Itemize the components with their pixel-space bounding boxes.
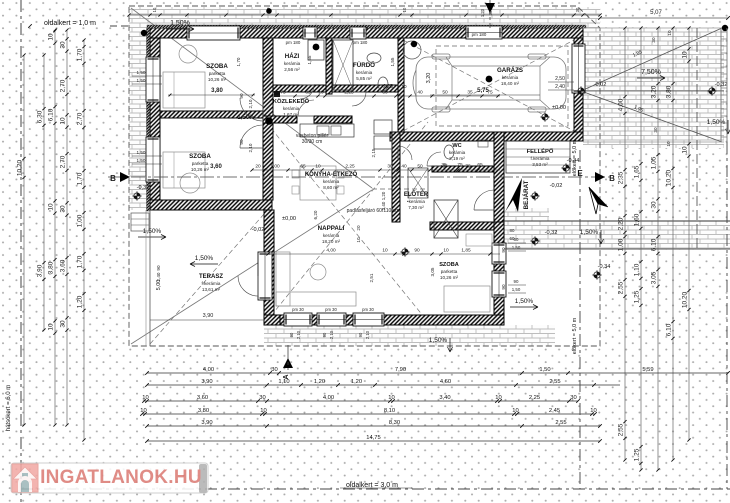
- svg-text:40: 40: [401, 164, 407, 170]
- wall hazi/furdo partition: [326, 38, 332, 94]
- svg-text:előkert = 5,0 m: előkert = 5,0 m: [572, 139, 578, 176]
- window living south 3: [353, 313, 384, 326]
- svg-text:90: 90: [239, 93, 244, 99]
- boundary dashed bottom: [21, 488, 730, 490]
- svg-text:10,26 m²: 10,26 m²: [208, 77, 227, 82]
- window bedroom3 east 1: [492, 243, 506, 264]
- living room table: [310, 264, 326, 280]
- svg-text:2,56 m²: 2,56 m²: [284, 67, 300, 72]
- svg-text:90: 90: [156, 265, 161, 271]
- svg-text:2,70: 2,70: [77, 112, 84, 125]
- svg-text:kerámia: kerámia: [323, 179, 340, 184]
- svg-text:90: 90: [414, 248, 420, 254]
- svg-text:5,59: 5,59: [642, 367, 653, 373]
- svg-text:6,10: 6,10: [666, 323, 673, 336]
- svg-text:10: 10: [48, 203, 55, 211]
- retaining wall right edge: [721, 28, 727, 142]
- svg-text:3,20: 3,20: [426, 73, 432, 84]
- svg-text:3,20: 3,20: [651, 85, 658, 98]
- kitchen-living dashed diagonal 1: [266, 122, 428, 322]
- wall kitchen north east segment: [314, 116, 352, 123]
- svg-text:6,20: 6,20: [313, 210, 318, 219]
- svg-text:±0,00: ±0,00: [552, 105, 566, 111]
- section line A top: [489, 0, 491, 28]
- svg-text:10: 10: [152, 7, 157, 12]
- svg-text:ELŐTÉR: ELŐTÉR: [404, 190, 429, 198]
- svg-text:1,25: 1,25: [634, 290, 641, 303]
- svg-text:1,50: 1,50: [137, 70, 146, 75]
- svg-text:3,53 m²: 3,53 m²: [532, 162, 548, 167]
- wall furdo/garage vertical: [398, 38, 404, 132]
- svg-text:6,10: 6,10: [48, 108, 55, 121]
- svg-text:30: 30: [488, 10, 493, 15]
- bedroom1 armchair: [179, 45, 197, 63]
- svg-text:f.kerámia: f.kerámia: [202, 281, 221, 286]
- svg-text:pm 180: pm 180: [286, 40, 301, 45]
- wall hall north partition: [273, 85, 403, 92]
- svg-text:30: 30: [60, 320, 67, 328]
- elevation mark garage south: [540, 112, 549, 121]
- svg-text:kerámia: kerámia: [283, 106, 300, 111]
- insulation band top exterior: [147, 25, 586, 28]
- svg-text:18,40 m²: 18,40 m²: [501, 81, 520, 86]
- roof eaves dashed outline: [129, 6, 600, 346]
- svg-text:1,20: 1,20: [314, 379, 325, 385]
- svg-text:oldalkert = 1,0 m: oldalkert = 1,0 m: [44, 20, 96, 27]
- svg-text:1,70: 1,70: [236, 57, 241, 66]
- svg-text:4,60: 4,60: [440, 379, 451, 385]
- svg-text:1,55: 1,55: [307, 55, 312, 64]
- svg-text:5,85 m²: 5,85 m²: [356, 76, 372, 81]
- svg-text:1,20: 1,20: [77, 295, 84, 308]
- svg-text:65: 65: [477, 162, 483, 168]
- wall left exterior: [150, 38, 160, 210]
- svg-text:1,10: 1,10: [278, 379, 289, 385]
- garage dashed diagonal 2: [403, 40, 574, 131]
- eloter closet cross box: [408, 168, 428, 198]
- svg-text:1,50: 1,50: [137, 158, 146, 163]
- wall bedroom3 north: [430, 222, 494, 230]
- svg-text:10,26 m²: 10,26 m²: [191, 167, 210, 172]
- door furdo: [352, 92, 366, 106]
- boundary dashed right lower: [726, 142, 728, 489]
- svg-text:B: B: [110, 174, 116, 183]
- svg-text:3,80: 3,80: [666, 85, 673, 98]
- svg-text:75: 75: [465, 164, 471, 170]
- terrace edge lines: [149, 210, 151, 346]
- svg-text:1,50%: 1,50%: [429, 337, 448, 344]
- svg-text:GARÁZS: GARÁZS: [497, 67, 523, 74]
- svg-text:1,05: 1,05: [651, 156, 658, 169]
- attic ladder cross box: [434, 200, 458, 238]
- terrace steps NW: [131, 213, 149, 231]
- svg-text:10: 10: [388, 395, 394, 401]
- svg-text:30: 30: [60, 41, 67, 49]
- svg-text:hátsókert = 6,0 m: hátsókert = 6,0 m: [6, 385, 12, 432]
- svg-text:2,40: 2,40: [555, 84, 565, 90]
- roofline dot NW2: [266, 8, 272, 14]
- wall garage east: [574, 38, 583, 132]
- svg-text:35: 35: [467, 90, 473, 96]
- svg-text:30: 30: [651, 37, 656, 43]
- door hazi: [300, 85, 314, 99]
- svg-text:3,05: 3,05: [430, 267, 435, 276]
- svg-text:2,25: 2,25: [529, 395, 540, 401]
- svg-text:3,80: 3,80: [198, 408, 209, 414]
- garage dashed diagonal 1: [403, 40, 574, 131]
- svg-text:TERASZ: TERASZ: [199, 274, 223, 280]
- svg-text:4,00: 4,00: [323, 395, 334, 401]
- top right dimension 5,07: [600, 17, 728, 19]
- section marker A bottom: [283, 358, 293, 368]
- svg-text:90: 90: [322, 332, 327, 337]
- svg-text:1,67 m²: 1,67 m²: [283, 112, 299, 117]
- bedroom2 bed: [163, 152, 205, 188]
- window bedroom2 west: [146, 137, 160, 182]
- svg-text:pm 180: pm 180: [472, 32, 487, 37]
- svg-text:2,35: 2,35: [618, 171, 625, 184]
- svg-text:1,25: 1,25: [634, 448, 641, 461]
- svg-text:10: 10: [512, 408, 518, 414]
- svg-text:-0,02: -0,02: [594, 82, 607, 88]
- brick walkway band east of entrance: [504, 208, 549, 222]
- svg-text:-0,02: -0,02: [252, 227, 265, 233]
- svg-text:1,50: 1,50: [137, 78, 146, 83]
- boundary dashed left: [20, 0, 22, 503]
- svg-text:parketta: parketta: [209, 71, 226, 76]
- svg-text:5,07: 5,07: [650, 10, 662, 16]
- svg-text:18,20 m²: 18,20 m²: [322, 239, 341, 244]
- svg-text:1,70: 1,70: [77, 172, 84, 185]
- svg-text:-0,32: -0,32: [137, 185, 150, 191]
- boundary dashed right outer: [696, 28, 698, 250]
- svg-text:80: 80: [510, 228, 515, 233]
- svg-text:pm 30: pm 30: [325, 307, 337, 312]
- north arrow: [589, 187, 608, 207]
- wall living/bedroom3 south: [264, 315, 504, 325]
- boundary dashed top-left to house: [110, 25, 129, 27]
- svg-text:30: 30: [271, 367, 277, 373]
- svg-text:7,90: 7,90: [395, 367, 406, 373]
- svg-text:1,50%: 1,50%: [143, 228, 162, 235]
- svg-text:2,10: 2,10: [365, 330, 370, 339]
- svg-text:6,30: 6,30: [37, 110, 44, 123]
- svg-text:1,50%: 1,50%: [580, 229, 599, 236]
- svg-text:2,55: 2,55: [618, 423, 625, 436]
- svg-text:1,50%: 1,50%: [170, 20, 190, 27]
- right dimension chains: [624, 28, 626, 460]
- svg-text:10: 10: [142, 395, 148, 401]
- svg-text:10,20: 10,20: [17, 159, 24, 176]
- left dimension chains: [23, 55, 25, 425]
- svg-text:1,00: 1,00: [618, 238, 625, 251]
- svg-text:10: 10: [402, 7, 407, 12]
- door eloter-hall: [398, 146, 412, 160]
- black column corridor west: [274, 91, 280, 97]
- window bedroom3 east 2: [492, 271, 506, 297]
- svg-text:1,50%: 1,50%: [237, 115, 255, 121]
- svg-text:1,20: 1,20: [381, 191, 386, 200]
- svg-text:pm 30: pm 30: [292, 307, 304, 312]
- svg-text:NAPPALI: NAPPALI: [318, 225, 345, 232]
- svg-text:2,55: 2,55: [549, 379, 560, 385]
- svg-text:3,05: 3,05: [651, 271, 658, 284]
- svg-text:1,00: 1,00: [77, 214, 84, 227]
- roof outline interior (white): [129, 6, 600, 346]
- svg-text:75: 75: [280, 90, 286, 96]
- svg-text:3,90: 3,90: [203, 313, 214, 319]
- corner dot NE: [722, 25, 728, 31]
- svg-text:BEJÁRAT: BEJÁRAT: [523, 180, 530, 209]
- bathroom tub: [333, 40, 353, 90]
- svg-text:10: 10: [356, 237, 361, 243]
- svg-text:10: 10: [382, 248, 388, 254]
- wall bedroom wing south: [150, 200, 272, 210]
- svg-text:2,10: 2,10: [329, 330, 334, 339]
- svg-text:2,40: 2,40: [381, 201, 386, 210]
- kitchen dimension row: [252, 169, 500, 171]
- svg-text:padlásfeljáró 60/110 cm: padlásfeljáró 60/110 cm: [347, 208, 400, 214]
- bathroom wc: [378, 77, 388, 91]
- svg-text:65: 65: [300, 164, 306, 170]
- svg-text:SZOBA: SZOBA: [206, 63, 228, 70]
- brick walkway left strip: [129, 28, 150, 210]
- svg-text:1,70: 1,70: [77, 48, 84, 61]
- svg-text:2,20: 2,20: [618, 217, 625, 230]
- front entrance door: [474, 190, 494, 210]
- svg-text:90: 90: [289, 332, 294, 337]
- svg-text:kerámia: kerámia: [502, 75, 519, 80]
- svg-text:3,80: 3,80: [211, 88, 223, 94]
- svg-text:HÁZI: HÁZI: [285, 53, 300, 60]
- wall garage & east wing south: [390, 132, 583, 141]
- driveway slope fan origin to NE: [581, 28, 722, 91]
- brick area border lines: [583, 27, 724, 29]
- insulation band left exterior: [147, 28, 150, 211]
- svg-text:2,55: 2,55: [555, 420, 566, 426]
- svg-text:90: 90: [501, 247, 506, 253]
- hazi washing machine with dot: [308, 40, 324, 60]
- svg-text:4,00: 4,00: [326, 248, 336, 254]
- svg-text:parketta: parketta: [192, 161, 209, 166]
- svg-text:3,80: 3,80: [48, 261, 55, 274]
- bedroom3 wardrobe: [466, 234, 492, 246]
- svg-text:10: 10: [401, 84, 407, 89]
- svg-text:10: 10: [666, 141, 671, 147]
- garage inner roof dashed rect: [436, 46, 568, 126]
- wall top exterior: [150, 28, 583, 38]
- svg-text:30: 30: [259, 395, 265, 401]
- svg-text:10: 10: [682, 51, 689, 59]
- svg-text:2,50: 2,50: [555, 76, 565, 82]
- brick walkway bottom strip: [264, 325, 555, 346]
- svg-text:10: 10: [260, 408, 266, 414]
- wall corner pillar SW of living: [264, 315, 280, 325]
- svg-text:WC: WC: [452, 143, 461, 149]
- kitchen fridge/stove: [374, 120, 392, 134]
- svg-text:3,40: 3,40: [439, 395, 450, 401]
- svg-text:10,20: 10,20: [682, 291, 689, 308]
- hall dimension row: [270, 95, 500, 97]
- svg-text:30: 30: [387, 164, 393, 170]
- svg-text:5,00: 5,00: [156, 280, 162, 291]
- living dimension row: [264, 253, 500, 255]
- garage door east: [572, 44, 585, 93]
- boundary dashed front (elokert): [579, 150, 581, 489]
- svg-text:SZOBA: SZOBA: [189, 153, 211, 160]
- svg-text:2,10: 2,10: [296, 330, 301, 339]
- wall bedroom partition: [160, 111, 263, 118]
- svg-text:1,00: 1,00: [270, 164, 280, 170]
- corner dot NW roofline: [141, 30, 147, 36]
- wc sink: [478, 140, 488, 147]
- svg-text:90: 90: [501, 284, 506, 290]
- fellepo landing outline: [506, 141, 570, 173]
- svg-text:50: 50: [417, 164, 423, 170]
- svg-text:1,50: 1,50: [137, 150, 146, 155]
- svg-text:2,25: 2,25: [383, 84, 393, 90]
- svg-text:2,55: 2,55: [618, 281, 625, 294]
- window label dims west wall: [132, 75, 162, 77]
- svg-text:-0,02: -0,02: [550, 183, 563, 189]
- svg-text:előkert = 5,0 m: előkert = 5,0 m: [572, 317, 578, 354]
- bathroom sink: [367, 53, 381, 63]
- window living south 1: [284, 313, 312, 326]
- svg-text:30: 30: [570, 395, 576, 401]
- svg-text:1,50: 1,50: [512, 287, 521, 292]
- svg-text:8,60 m²: 8,60 m²: [323, 185, 339, 190]
- wall east exterior lower (bedroom3): [494, 222, 504, 325]
- svg-text:30: 30: [651, 201, 658, 209]
- window living south 2: [317, 313, 346, 326]
- reinforced concrete pillar (filled): [265, 117, 273, 125]
- brick walkway top strip: [129, 7, 600, 28]
- svg-text:10: 10: [48, 323, 55, 331]
- svg-text:2,70: 2,70: [60, 155, 67, 168]
- wall east exterior upper: [494, 132, 504, 222]
- svg-text:2,51: 2,51: [369, 273, 374, 282]
- svg-text:pm 30: pm 30: [362, 307, 374, 312]
- svg-text:10: 10: [495, 395, 501, 401]
- svg-text:kerámia: kerámia: [356, 70, 373, 75]
- wc toilet: [444, 145, 454, 159]
- marker B right: [595, 172, 605, 182]
- watermark logo box: [11, 463, 208, 493]
- svg-text:30: 30: [382, 90, 388, 96]
- terrace door swing: [238, 276, 258, 296]
- svg-text:1,65: 1,65: [634, 165, 641, 178]
- svg-text:1,85: 1,85: [461, 248, 471, 254]
- terrace dashed diagonal: [150, 214, 264, 344]
- svg-text:90: 90: [514, 279, 519, 284]
- svg-text:90: 90: [358, 332, 363, 337]
- roof hip diagonal NW: [131, 8, 372, 188]
- svg-text:20: 20: [255, 164, 261, 170]
- svg-text:KÖZLEKEDŐ: KÖZLEKEDŐ: [273, 98, 310, 105]
- svg-text:90: 90: [239, 139, 244, 145]
- svg-text:10,20: 10,20: [666, 169, 673, 186]
- door kitchen: [298, 100, 314, 116]
- svg-text:2,10: 2,10: [248, 99, 253, 108]
- elevation mark bottom center: [400, 247, 409, 256]
- svg-text:INGATLANOK.HU: INGATLANOK.HU: [40, 467, 202, 488]
- svg-text:parketta: parketta: [441, 269, 458, 274]
- driveway slope fan horizontal: [581, 90, 724, 92]
- svg-text:10: 10: [48, 33, 55, 41]
- svg-text:40: 40: [417, 90, 423, 96]
- door wc: [427, 152, 441, 166]
- wall bedrooms / hall vertical: [263, 38, 273, 200]
- svg-text:30: 30: [575, 7, 580, 12]
- svg-text:1,60: 1,60: [634, 213, 641, 226]
- driveway slope fan to SE: [581, 91, 722, 142]
- svg-text:8,10: 8,10: [384, 408, 395, 414]
- svg-text:2,25: 2,25: [344, 90, 354, 96]
- svg-text:kerámia: kerámia: [323, 233, 340, 238]
- svg-text:50: 50: [442, 90, 448, 96]
- door bedroom1: [240, 98, 263, 121]
- bedroom2 armchair: [180, 173, 200, 193]
- svg-text:2,45: 2,45: [549, 408, 560, 414]
- svg-text:3,60: 3,60: [197, 395, 208, 401]
- svg-text:8,30: 8,30: [389, 420, 400, 426]
- svg-text:FELLÉPŐ: FELLÉPŐ: [527, 147, 554, 155]
- svg-text:kerámia: kerámia: [284, 61, 301, 66]
- svg-text:1,50: 1,50: [539, 367, 550, 373]
- svg-text:±0,00: ±0,00: [282, 216, 296, 222]
- bedroom3 bed: [444, 286, 490, 312]
- svg-text:10: 10: [60, 117, 67, 125]
- window bedroom1 west: [146, 57, 160, 102]
- svg-text:4,00: 4,00: [618, 98, 625, 111]
- svg-text:kerámia: kerámia: [449, 150, 466, 155]
- svg-text:7,30 m²: 7,30 m²: [408, 205, 424, 210]
- wall wc south: [432, 166, 494, 172]
- wall hall/eloter west: [392, 132, 400, 222]
- entrance arrow: [505, 178, 522, 212]
- svg-text:85: 85: [305, 90, 311, 96]
- dining table with chairs: [300, 166, 336, 200]
- window garage north: [466, 26, 502, 39]
- car in garage: [413, 54, 566, 112]
- svg-text:6,10: 6,10: [651, 238, 658, 251]
- svg-text:pm 180: pm 180: [353, 40, 368, 45]
- svg-text:3,90: 3,90: [201, 420, 212, 426]
- svg-text:20: 20: [356, 225, 361, 231]
- kitchen-living dashed diagonal 2: [266, 122, 428, 322]
- kitchen counter and sink: [300, 124, 354, 137]
- svg-text:2,70: 2,70: [60, 79, 67, 92]
- svg-text:3,90: 3,90: [201, 379, 212, 385]
- svg-text:2,15: 2,15: [371, 148, 376, 157]
- window bedroom1 north: [187, 26, 240, 40]
- terrace door west of living: [258, 252, 272, 300]
- window furdo north: [350, 27, 366, 39]
- svg-text:10: 10: [590, 408, 596, 414]
- section line B-B: [108, 176, 612, 178]
- svg-text:2,19 m²: 2,19 m²: [449, 156, 465, 161]
- svg-text:13,61 m²: 13,61 m²: [202, 287, 221, 292]
- svg-text:10: 10: [140, 408, 146, 414]
- svg-text:10: 10: [667, 30, 672, 36]
- svg-text:14,75: 14,75: [366, 435, 381, 441]
- svg-text:-0,32: -0,32: [545, 230, 558, 236]
- brick driveway right area: [583, 28, 724, 148]
- svg-text:1,50%: 1,50%: [195, 255, 214, 262]
- garage center point: [486, 76, 493, 83]
- svg-text:1,70: 1,70: [77, 255, 84, 268]
- svg-text:1,55: 1,55: [390, 57, 395, 66]
